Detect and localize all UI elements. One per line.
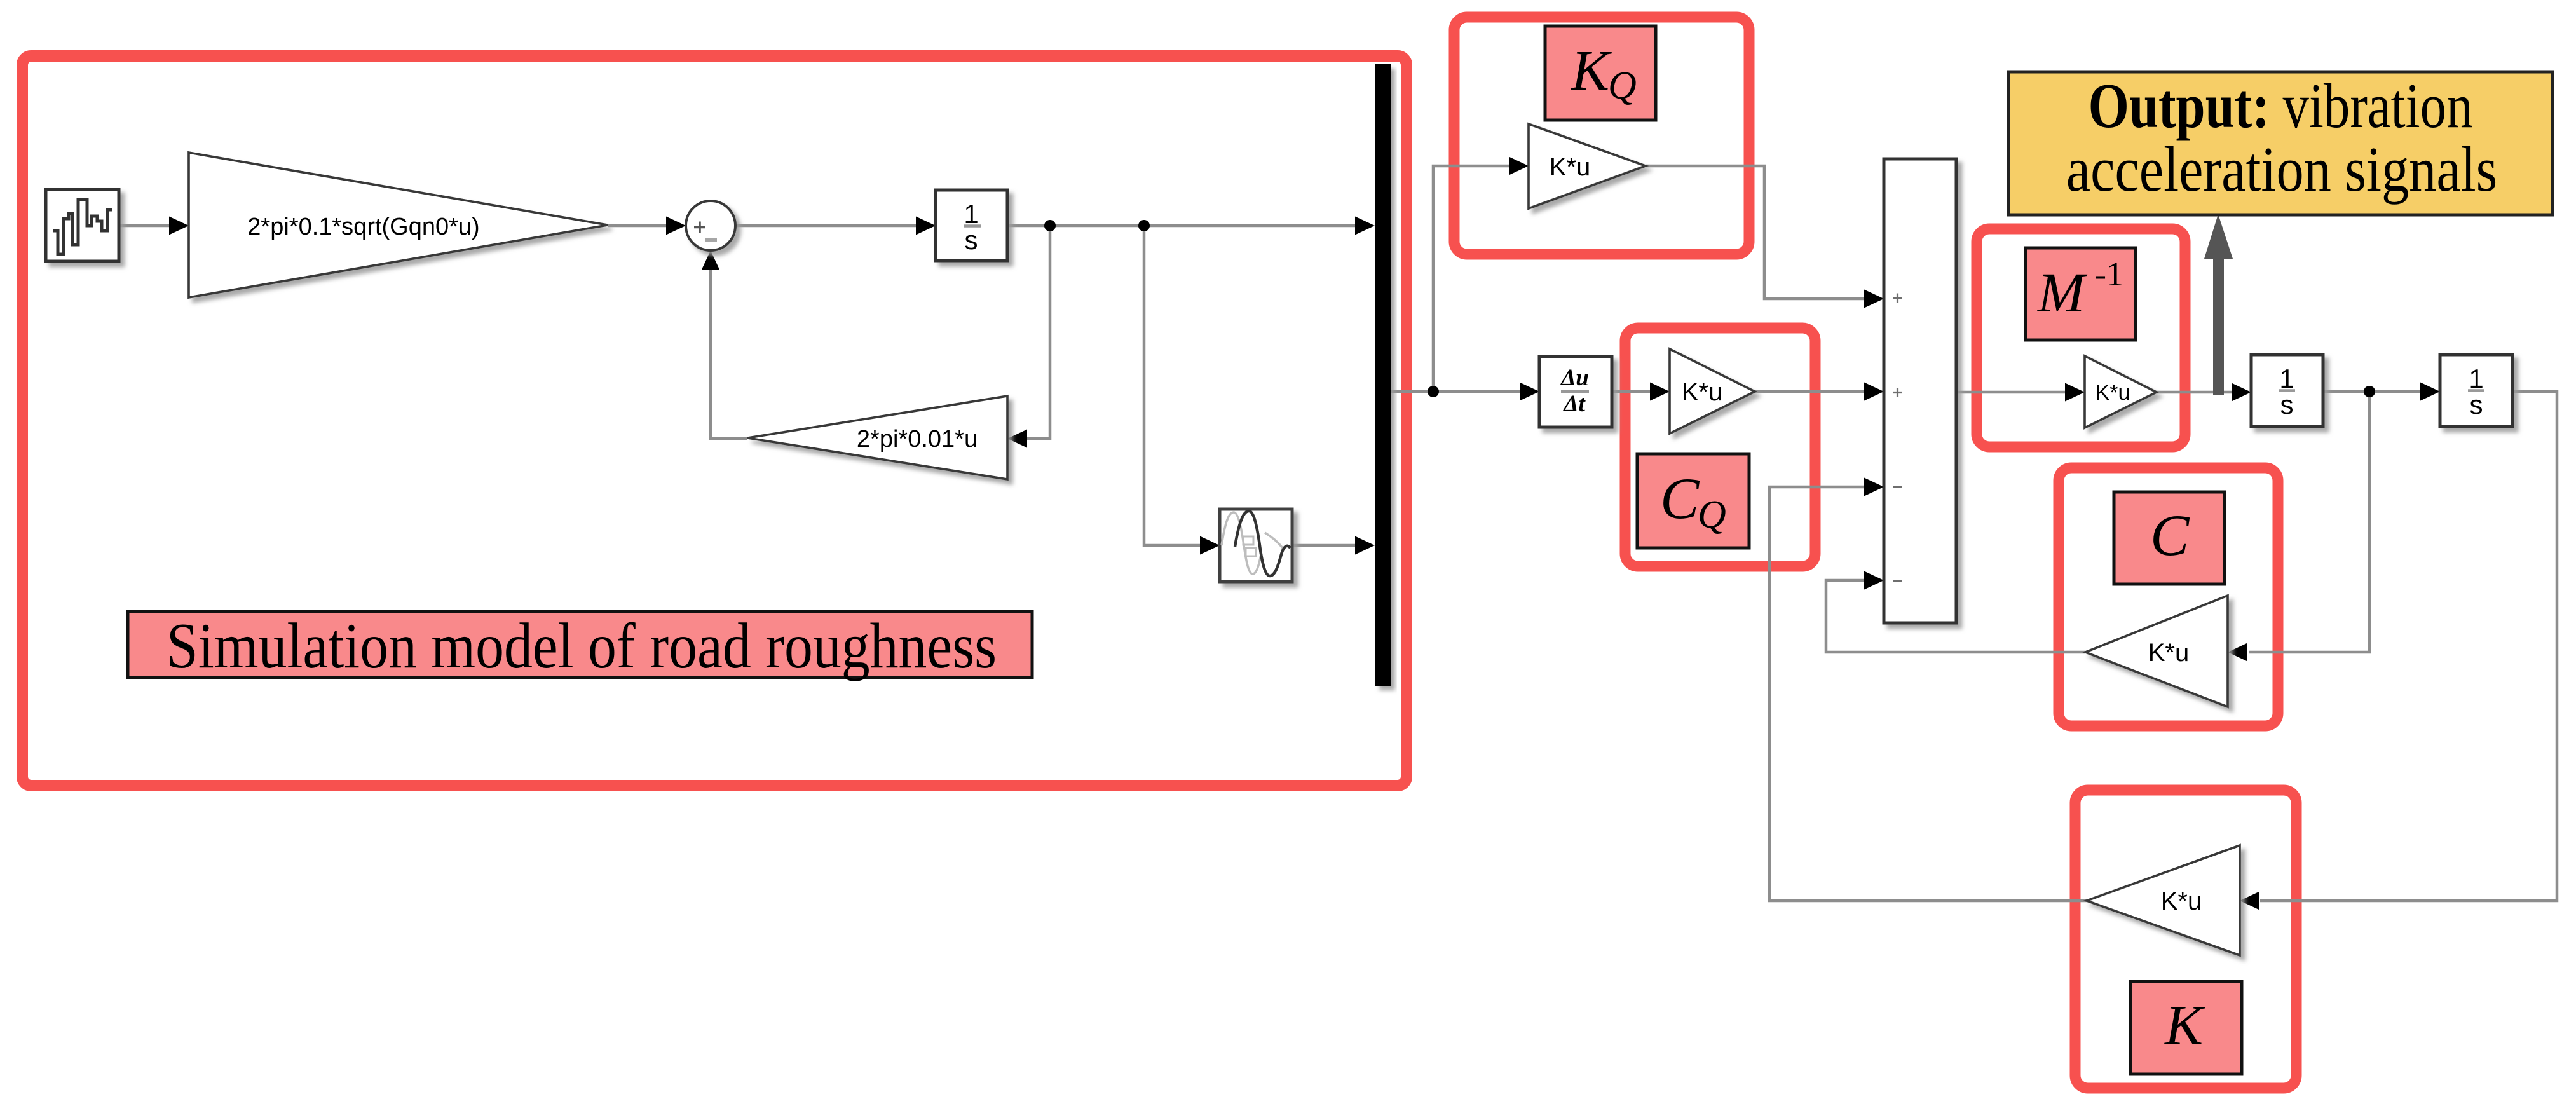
svg-text:Q: Q [1608,64,1637,107]
arrow into sum circle [666,217,686,235]
pink label KQ [1545,26,1656,120]
arrow into sum input 2 [1864,383,1884,401]
wire mux output to du/dt [1391,390,1529,393]
wire junction A down to feedback gain [1018,226,1050,439]
pink label C [2114,492,2225,584]
pink label K [2130,981,2242,1074]
wire integrator 2 to integrator 3 [2323,390,2429,393]
arrow into C gain (left) [2228,643,2247,662]
svg-text:acceleration signals: acceleration signals [2066,134,2497,205]
integrator 1/s block 2 [2251,355,2323,427]
output arrow (big gray up arrow) [2204,214,2233,395]
wire C gain to sum input 4 [1826,580,2085,652]
svg-text:1: 1 [964,199,978,229]
wire junction C up to KQ gain [1433,166,1518,392]
svg-text:2*pi*0.01*u: 2*pi*0.01*u [857,426,978,453]
wire noise source to road gain [119,224,177,228]
CQ gain triangle [1670,349,1755,434]
M inverse gain triangle [2085,356,2157,428]
wire wave block to mux [1292,544,1364,547]
svg-text:Output: vibration: Output: vibration [2089,70,2473,141]
arrow into mux port 1 [1355,217,1375,235]
svg-text:1: 1 [2469,364,2483,393]
arrow into wave block [1200,536,1220,555]
K gain triangle (left pointing) [2087,845,2240,955]
wire CQ gain to sum input 2 [1755,390,1873,393]
arrow into sum input 1 [1864,290,1884,308]
arrow into sum input 3 [1864,478,1884,496]
svg-text:K*u: K*u [1550,153,1591,181]
arrow into du/dt block [1520,383,1539,401]
junction dot D [2364,386,2375,397]
arrow into sum input 4 [1864,571,1884,590]
arrow into CQ gain [1650,383,1670,401]
annotation frame C [2059,468,2278,726]
junction dot A [1044,220,1056,231]
arrow into K gain (left) [2240,892,2259,910]
integrator 1/s block 3 [2440,355,2512,427]
wire sum output to M gain [1956,391,2074,394]
arrow into integrator 1/s [916,217,936,235]
svg-text:K: K [1570,39,1612,102]
svg-text:M: M [2036,262,2088,324]
wire junction D down to C gain [2249,392,2369,652]
arrow into road gain [169,217,189,235]
annotation frame KQ [1454,17,1749,254]
svg-text:1: 1 [2279,364,2294,393]
feedback gain triangle 2*pi*0.01*u [747,396,1007,479]
arrow into feedback gain (left) [1007,430,1027,448]
wire integrator 3 loop to K gain [2260,392,2557,901]
wire sum circle to integrator 1/s [736,224,925,228]
pink label M inverse [2026,248,2136,340]
annotation box: simulation model of road roughness (big red frame) [22,56,1407,786]
svg-text:Δt: Δt [1562,391,1586,417]
pink label: simulation model of road roughness [128,610,1032,682]
svg-text:K*u: K*u [1682,378,1723,406]
svg-text:2*pi*0.1*sqrt(Gqn0*u): 2*pi*0.1*sqrt(Gqn0*u) [247,214,479,240]
svg-text:Q: Q [1698,493,1726,536]
yellow output annotation box [2008,70,2552,215]
svg-text:s: s [2470,390,2483,420]
du/dt block [1539,357,1612,427]
svg-text:-1: -1 [2095,255,2123,293]
KQ gain triangle [1529,124,1646,208]
svg-text:C: C [2150,503,2190,568]
integrator 1/s block 1 [936,190,1007,261]
ARROWHEADS [169,157,2440,910]
svg-text:C: C [1660,466,1700,531]
junction dot C [1428,386,1439,397]
arrow into mux port 2 [1355,536,1375,555]
wire du/dt to CQ gain [1612,390,1659,393]
wire road gain to sum circle [608,224,675,228]
arrow into sum circle bottom (up) [702,250,720,270]
pink label CQ [1637,454,1749,548]
wire feedback gain to sum circle bottom [711,261,747,439]
wire integrator to mux [1007,224,1364,228]
svg-text:K: K [2164,994,2205,1057]
arrow into integrator 3 [2420,383,2440,401]
svg-text:K*u: K*u [2161,887,2202,915]
wave shaping block [1220,509,1292,582]
svg-text:s: s [965,225,978,255]
annotation frame CQ [1625,328,1815,566]
C gain triangle (left pointing) [2085,596,2228,707]
wire KQ gain to sum input 1 [1646,166,1873,299]
svg-text:K*u: K*u [2096,381,2130,405]
arrow into integrator 2 [2232,383,2251,402]
svg-text:Δu: Δu [1560,365,1589,391]
svg-text:s: s [2280,390,2294,420]
wire K gain to sum input 3 [1769,487,2087,901]
mux bar [1375,64,1391,686]
noise source block [46,189,119,261]
wire junction B down to wave block [1144,226,1209,545]
annotation frame K [2075,790,2296,1088]
annotation frame M [1977,229,2185,447]
wire M gain to integrator 2 [2157,391,2240,394]
arrow into M gain [2065,383,2085,402]
sum block rectangle [1884,159,1956,623]
svg-text:Simulation model of road rough: Simulation model of road roughness [167,610,997,682]
svg-text:K*u: K*u [2148,639,2190,667]
road roughness gain triangle [189,153,608,297]
arrow into KQ gain [1509,157,1529,175]
junction dot B [1138,220,1150,231]
sum circle [686,201,735,250]
